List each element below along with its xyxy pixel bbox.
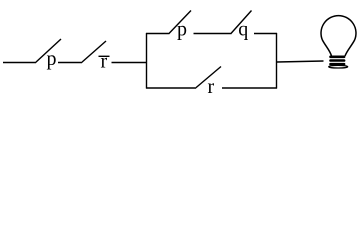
- lamp screw base thread 1: [329, 56, 345, 59]
- switch p blade (series switch 1): [35, 39, 61, 63]
- svg-text:r: r: [101, 51, 108, 73]
- wire top-right (top branch out): [254, 33, 277, 35]
- node: left vertical bus of parallel block: [146, 33, 148, 89]
- wire W4 (output lead to lamp): [277, 61, 324, 62]
- switch p blade (top branch): [169, 11, 192, 35]
- label r-bar (series switch 2): [99, 51, 110, 73]
- wire W1 (input lead): [3, 62, 35, 64]
- lamp glass envelope: [321, 16, 356, 56]
- lamp base bottom ring: [329, 65, 348, 68]
- switch r blade (bottom branch): [195, 67, 221, 89]
- switch q blade (top branch): [231, 11, 252, 35]
- wire top-middle (between p and q): [194, 33, 231, 35]
- lamp screw base thread 3: [329, 63, 345, 65]
- node: right vertical bus of parallel block: [276, 33, 278, 89]
- switch r-bar blade (series switch 2): [81, 41, 106, 63]
- lamp screw base thread 2: [329, 59, 345, 62]
- svg-text:p: p: [47, 48, 57, 70]
- svg-text:p: p: [177, 19, 187, 41]
- wire top-left (top branch): [146, 33, 169, 35]
- wire W2 (between switch p and switch r-bar): [58, 62, 81, 64]
- wire bottom-left (bottom branch): [146, 87, 195, 89]
- svg-text:r: r: [208, 76, 215, 98]
- lamp L1 (light bulb): [321, 16, 356, 68]
- svg-text:q: q: [238, 19, 248, 41]
- wire bottom-right (bottom branch out): [222, 87, 277, 89]
- wire W3 (into parallel block): [112, 62, 148, 64]
